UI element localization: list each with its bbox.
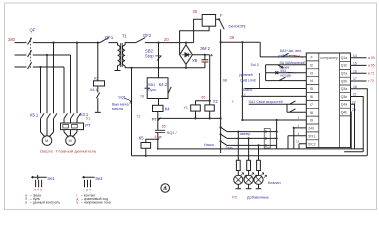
- svg-text:17: 17: [353, 77, 357, 81]
- svg-text:5/Х1: 5/Х1: [308, 134, 315, 138]
- svg-text:I6: I6: [310, 95, 313, 99]
- svg-text:T1: T1: [122, 34, 128, 39]
- svg-text:29: 29: [230, 35, 235, 40]
- svg-text:SQ1: SQ1: [118, 95, 126, 99]
- svg-text:д: д: [86, 188, 88, 192]
- svg-text:Se1: Se1: [47, 176, 55, 181]
- svg-text:Q4а: Q4а: [341, 103, 348, 107]
- svg-text:I2: I2: [310, 63, 313, 67]
- svg-text:I4: I4: [310, 79, 313, 83]
- svg-text:Пуск: Пуск: [148, 88, 156, 92]
- svg-text:Ч53: Ч53: [280, 69, 286, 73]
- svg-text:г 72: г 72: [368, 79, 374, 83]
- svg-text:I3: I3: [310, 71, 313, 75]
- svg-text:I8: I8: [310, 111, 313, 115]
- svg-text:QF2: QF2: [143, 33, 152, 38]
- svg-text:Q2b: Q2b: [341, 79, 348, 83]
- svg-text:Sol 3: Sol 3: [251, 63, 259, 67]
- svg-text:SA3 Чис. вел.: SA3 Чис. вел.: [280, 49, 302, 53]
- svg-text:4 дв: 4 дв: [155, 135, 162, 139]
- svg-text:х: х: [232, 100, 234, 104]
- svg-text:К4.1: К4.1: [90, 88, 97, 92]
- svg-text:Q2а: Q2а: [341, 72, 348, 76]
- svg-text:78: 78: [140, 95, 144, 99]
- svg-text:масла: масла: [112, 107, 124, 111]
- svg-text:исходн: исходн: [281, 74, 292, 78]
- svg-text:Q1b: Q1b: [341, 64, 348, 68]
- svg-text:4: 4: [298, 132, 300, 136]
- svg-text:е: е: [76, 200, 78, 204]
- svg-text:5.1: 5.1: [86, 117, 91, 121]
- svg-text:30: 30: [193, 9, 198, 14]
- svg-text:380: 380: [8, 37, 16, 42]
- svg-text:Se2: Se2: [95, 176, 103, 181]
- svg-text:б: б: [37, 188, 39, 192]
- svg-text:SA3: SA3: [294, 55, 301, 59]
- svg-text:К3: К3: [94, 77, 98, 81]
- svg-text:в: в: [40, 188, 42, 192]
- svg-text:е: е: [89, 188, 91, 192]
- svg-text:6хНОКЗП[: 6хНОКЗП[: [229, 25, 246, 29]
- svg-text:14: 14: [353, 54, 357, 58]
- svg-text:Сверло: Сверло: [40, 149, 53, 153]
- svg-text:240: 240: [308, 127, 314, 131]
- svg-text:а: а: [34, 188, 36, 192]
- svg-text:К4.2: К4.2: [159, 82, 168, 87]
- svg-text:08: 08: [223, 79, 227, 83]
- svg-text:11: 11: [296, 140, 300, 144]
- svg-text:УВ: УВ: [192, 58, 198, 63]
- svg-text:QF1: QF1: [105, 35, 114, 40]
- svg-text:22: 22: [352, 100, 356, 104]
- svg-text:65: 65: [162, 125, 166, 129]
- svg-text:SB1: SB1: [148, 83, 155, 87]
- svg-text:15: 15: [353, 62, 357, 66]
- svg-text:Stop: Stop: [145, 53, 154, 58]
- svg-text:в 71: в 71: [368, 71, 375, 75]
- svg-text:Клапан: Клапан: [268, 181, 281, 185]
- svg-text:2: 2: [298, 124, 300, 128]
- svg-text:г: г: [83, 188, 84, 192]
- svg-text:К5: К5: [139, 136, 144, 141]
- svg-text:К4: К4: [165, 107, 170, 112]
- svg-text:Q1а: Q1а: [341, 56, 348, 60]
- svg-text:М: М: [45, 138, 48, 143]
- svg-text:SA ЗАМедлениЕ: SA ЗАМедлениЕ: [280, 61, 307, 65]
- svg-text:Q4b: Q4b: [341, 110, 348, 114]
- svg-text:РТ: РТ: [152, 117, 158, 122]
- svg-text:16: 16: [353, 69, 357, 73]
- svg-text:18: 18: [353, 85, 357, 89]
- svg-text:20: 20: [164, 37, 169, 42]
- svg-text:SQ1 /: SQ1 /: [167, 131, 178, 135]
- svg-text:Добавочные: Добавочные: [247, 195, 269, 199]
- svg-text:ЭМ 2: ЭМ 2: [200, 46, 211, 51]
- svg-text:5/С2: 5/С2: [308, 142, 315, 146]
- svg-text:К5.1: К5.1: [30, 112, 39, 117]
- svg-text:а 65: а 65: [368, 64, 375, 68]
- svg-text:QF: QF: [30, 28, 36, 33]
- svg-text:ампер: ампер: [240, 132, 250, 136]
- svg-text:21: 21: [353, 93, 357, 97]
- svg-text:72: 72: [137, 115, 141, 119]
- svg-text:23: 23: [352, 108, 356, 112]
- svg-text:РТ: РТ: [85, 123, 91, 128]
- svg-text:Вык меха: Вык меха: [112, 102, 129, 106]
- svg-text:уровней: уровней: [239, 73, 253, 77]
- svg-text:65: 65: [201, 95, 205, 99]
- svg-text:работы: работы: [278, 54, 290, 58]
- svg-text:SA1 Свои скоростей: SA1 Свои скоростей: [249, 100, 283, 104]
- svg-text:в: в: [25, 200, 27, 204]
- svg-text:Таль: Таль: [225, 146, 233, 150]
- svg-text:Q3а: Q3а: [341, 87, 348, 91]
- svg-text:Y2: Y2: [213, 99, 219, 104]
- svg-text:– данный контроль: – данный контроль: [30, 200, 60, 204]
- svg-text:М: М: [69, 138, 72, 143]
- svg-text:I9: I9: [310, 119, 313, 123]
- svg-text:Q3b: Q3b: [341, 95, 348, 99]
- svg-text:F: F: [220, 13, 223, 18]
- svg-text:Масл.: Масл.: [243, 88, 253, 92]
- svg-text:а 30: а 30: [368, 56, 375, 60]
- svg-text:I5: I5: [310, 87, 313, 91]
- svg-text:СиВ Limit: СиВ Limit: [240, 78, 256, 82]
- svg-text:Главный движитель: Главный движитель: [56, 148, 96, 153]
- svg-text:– напряжение тока: – напряжение тока: [81, 200, 111, 204]
- svg-text:Насос: Насос: [204, 143, 214, 147]
- svg-text:Р2: Р2: [232, 195, 237, 199]
- svg-text:I7: I7: [310, 103, 313, 107]
- svg-text:контроллер: контроллер: [321, 56, 338, 60]
- svg-text:1: 1: [298, 116, 300, 120]
- svg-text:Y1: Y1: [184, 106, 188, 110]
